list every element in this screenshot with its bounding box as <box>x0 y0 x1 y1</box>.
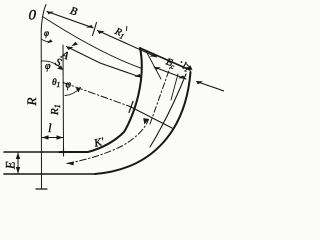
extra arrow near A <box>71 42 78 46</box>
label A <box>59 48 71 62</box>
label R1' <box>112 23 128 42</box>
node tangent tick bottom of R1 <box>59 152 68 154</box>
svg-text:R: R <box>24 98 39 107</box>
dimension Ec line <box>154 67 186 79</box>
wire strip top wall <box>4 151 64 153</box>
dimension R1' line <box>98 31 157 58</box>
svg-text:B: B <box>69 5 79 19</box>
wire foot at bottom of R line <box>36 188 47 190</box>
svg-text:l: l <box>48 120 52 135</box>
wire extension line left of Ec <box>146 51 161 79</box>
dimension A line <box>67 47 142 78</box>
label R1 rotated <box>49 104 62 116</box>
wire end cut <box>140 48 190 70</box>
wire outer edge curve <box>95 72 191 174</box>
svg-text:R1: R1 <box>49 104 62 116</box>
svg-text:E: E <box>4 161 18 170</box>
label l1 with leader <box>177 59 190 74</box>
wire inner edge arc R1 <box>60 48 142 152</box>
node tick between B and R1' <box>93 23 97 36</box>
label E rotated <box>4 161 18 170</box>
svg-text:0: 0 <box>29 8 37 24</box>
wire axis extension dash-dot <box>150 62 172 124</box>
label Ec <box>163 56 178 71</box>
wire thin outer arc <box>150 74 186 147</box>
svg-text:φ: φ <box>44 28 49 38</box>
wire strip bottom wall <box>4 173 95 175</box>
dimension E vertical <box>17 153 19 174</box>
svg-text:θ1: θ1 <box>52 78 60 89</box>
dimension B line <box>47 12 93 28</box>
svg-text:K′: K′ <box>92 136 106 150</box>
svg-text:R1: R1 <box>112 26 127 41</box>
wire radius line through strip <box>130 107 172 129</box>
label K' <box>92 136 106 150</box>
wire vertical radius line R1 <box>62 45 65 152</box>
wire dash-dot radius line from center to bend end <box>63 83 130 107</box>
node tangent tick on inner arc <box>129 102 133 113</box>
wire vertical radius line R from O <box>41 5 46 189</box>
dimension K' arc dash-dot <box>67 120 149 164</box>
svg-text:φ: φ <box>45 61 51 72</box>
label S <box>53 56 63 69</box>
wire edge line under B <box>43 17 143 69</box>
label R rotated <box>24 98 39 107</box>
dimension outside arrow at pipe end <box>198 82 224 91</box>
wire extension line right of Ec <box>171 74 178 100</box>
